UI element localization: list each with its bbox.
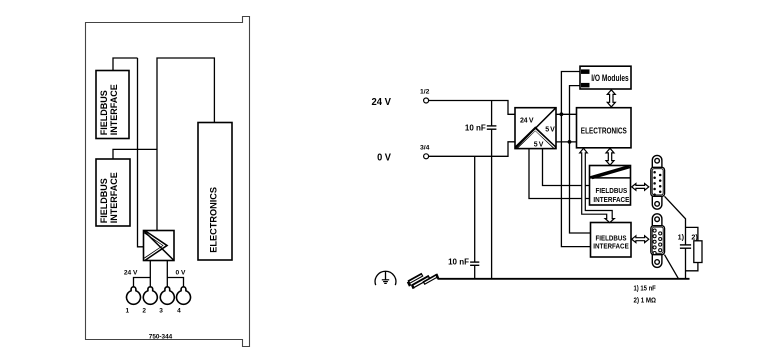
svg-text:1) 15 nF: 1) 15 nF <box>634 284 657 293</box>
module outline frame <box>86 17 250 347</box>
svg-text:1/2: 1/2 <box>420 89 430 96</box>
I/O modules box <box>580 66 631 89</box>
svg-text:INTERFACE: INTERFACE <box>109 84 119 135</box>
svg-text:FIELDBUS: FIELDBUS <box>99 90 109 135</box>
power jumper contact 4 <box>177 287 191 304</box>
junction dot L2 <box>568 140 572 144</box>
arrow electronics <-> fieldbus interface 1 <box>606 148 614 165</box>
wire converter output to contact 3 <box>166 261 168 288</box>
wire shield D-sub2 to rail <box>665 255 679 279</box>
wire 24V rail <box>429 101 515 115</box>
wire L1 supply bus <box>561 72 590 247</box>
capacitor 1) 15nF <box>680 245 691 279</box>
power jumper contact 1 <box>127 287 141 304</box>
fieldbus interface box FB-B <box>96 159 130 226</box>
wire 0V rail <box>429 142 515 157</box>
power jumper contact 3 <box>160 287 174 304</box>
svg-text:4: 4 <box>177 307 181 314</box>
junction dot L1 <box>560 112 564 116</box>
capacitor 10nF (bottom) <box>470 156 479 278</box>
capacitor 10nF (top) <box>487 101 497 279</box>
svg-text:ELECTRONICS: ELECTRONICS <box>581 126 627 136</box>
svg-text:2) 1 MΩ: 2) 1 MΩ <box>634 295 657 304</box>
wire FB-A riser <box>113 58 138 71</box>
svg-text:2): 2) <box>691 232 698 241</box>
svg-text:10 nF: 10 nF <box>448 258 469 267</box>
svg-text:3/4: 3/4 <box>420 144 430 151</box>
svg-text:5 V: 5 V <box>534 142 544 149</box>
dc/dc converter (left) <box>144 231 175 261</box>
fieldbus interface box FB-A <box>96 71 129 139</box>
wire converter 0V out (bottom) <box>556 141 577 143</box>
wire L2 supply bus <box>570 86 591 233</box>
svg-text:2: 2 <box>142 307 146 314</box>
wire FB-A vertical to converter left <box>138 58 144 247</box>
dc/dc converter (right) <box>515 108 556 149</box>
svg-text:24 V: 24 V <box>520 118 534 125</box>
functional earth symbol <box>375 271 396 285</box>
arrow electronics <-> fieldbus interface 2 (bent) <box>580 148 615 222</box>
svg-text:1: 1 <box>126 307 130 314</box>
wire converter fieldbus supply A <box>529 149 590 199</box>
wire converter output to contact 2 <box>149 261 151 288</box>
electronics box (right) <box>577 108 632 148</box>
svg-text:24 V: 24 V <box>372 97 392 108</box>
wire converter 5V out (top) <box>556 113 577 115</box>
svg-text:10 nF: 10 nF <box>465 123 486 132</box>
svg-text:1): 1) <box>678 232 685 241</box>
electronics box (left) <box>198 123 232 261</box>
terminal 3/4 <box>424 154 429 159</box>
fieldbus interface box 1 (with isolation strip) <box>590 166 631 206</box>
power jumper contact 2 <box>143 287 157 304</box>
svg-text:INTERFACE: INTERFACE <box>593 241 629 250</box>
D-sub connector 2 (female) <box>651 214 665 268</box>
svg-text:3: 3 <box>159 307 163 314</box>
wire shield D-sub1 to RC network <box>665 196 686 245</box>
wire converter fieldbus supply B <box>543 149 590 186</box>
svg-text:INTERFACE: INTERFACE <box>109 172 119 223</box>
fieldbus interface box 2 <box>591 223 632 258</box>
wire converter top bus <box>157 58 214 231</box>
svg-text:FIELDBUS: FIELDBUS <box>99 178 109 223</box>
svg-text:INTERFACE: INTERFACE <box>593 195 629 204</box>
D-sub connector 1 (male pins) <box>651 155 665 209</box>
svg-text:I/O Modules: I/O Modules <box>591 73 629 83</box>
shield/earth rail <box>438 278 690 280</box>
svg-text:750-344: 750-344 <box>149 333 173 340</box>
svg-text:5 V: 5 V <box>545 126 555 133</box>
svg-text:ELECTRONICS: ELECTRONICS <box>208 187 218 253</box>
terminal 1/2 <box>424 98 429 103</box>
wire 24V bracket <box>134 278 151 288</box>
wire FB-B riser <box>113 149 157 159</box>
svg-text:0 V: 0 V <box>377 152 391 163</box>
wire 0V bracket <box>167 278 183 288</box>
svg-text:0 V: 0 V <box>176 270 186 277</box>
svg-text:24 V: 24 V <box>124 270 138 277</box>
resistor 2) 1 Mohm branch <box>686 227 703 270</box>
arrow I/O modules <-> electronics <box>607 90 615 107</box>
arrow fieldbus 1 <-> D-sub 1 <box>632 184 649 191</box>
DIN rail icon <box>408 274 438 289</box>
arrow fieldbus 2 <-> D-sub 2 <box>632 236 649 243</box>
